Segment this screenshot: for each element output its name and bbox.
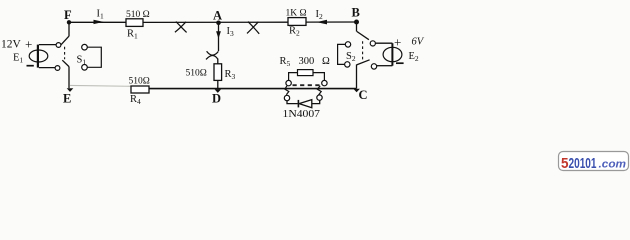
wire F down (68, 22, 70, 36)
svg-text:F: F (64, 8, 72, 22)
switch linkage dashed left (64, 47, 66, 60)
svg-text:1K Ω: 1K Ω (286, 8, 307, 18)
switch linkage dashed right (362, 41, 364, 59)
switch contact bottom left (55, 66, 60, 71)
plus sign E2 (394, 34, 401, 49)
svg-text:12V: 12V (1, 39, 22, 51)
wire battery- to contact (39, 67, 55, 69)
wire E to R4 (faint) (70, 84, 132, 87)
current arrow I1 (94, 9, 105, 25)
svg-text:E1: E1 (13, 53, 23, 65)
svg-text:Ω: Ω (322, 56, 330, 67)
switch blade top left (61, 36, 69, 44)
svg-text:I1: I1 (97, 9, 105, 21)
switch blade top right (357, 31, 369, 39)
switch contact top left (56, 43, 61, 48)
svg-text:D: D (212, 92, 221, 106)
resistor R3 (186, 64, 236, 81)
node B (352, 6, 360, 25)
node F (64, 8, 72, 24)
break mark X3 (206, 51, 218, 59)
switch blade bottom right (357, 60, 370, 65)
svg-text:+: + (394, 34, 401, 49)
label E1 (13, 53, 23, 65)
svg-text:510Ω: 510Ω (186, 68, 207, 78)
svg-text:R2: R2 (289, 26, 300, 38)
resistor R1 (126, 10, 150, 40)
svg-text:E2: E2 (409, 51, 419, 63)
wire to E (68, 67, 70, 89)
wire X3 to R3 (217, 59, 219, 64)
wire R3 to D (217, 80, 219, 88)
switch blade bottom left (62, 60, 69, 66)
node A (213, 9, 222, 26)
node E (63, 88, 73, 105)
node D (212, 89, 221, 105)
svg-text:300: 300 (299, 56, 315, 67)
svg-text:5: 5 (561, 156, 569, 172)
current arrow I2 (316, 9, 328, 24)
svg-text:C: C (359, 88, 368, 102)
relay blade right (317, 86, 321, 95)
switch S2 (338, 42, 356, 67)
wire battery+ to contact (39, 44, 56, 46)
svg-text:1N4007: 1N4007 (283, 109, 321, 120)
break mark X1 (175, 22, 187, 33)
break mark X2 (247, 22, 259, 34)
svg-text:R3: R3 (225, 69, 236, 81)
wire top bus F to R1 (69, 21, 127, 23)
svg-text:20101: 20101 (569, 156, 597, 172)
label 6V (412, 37, 425, 48)
switch contact top right (370, 41, 375, 46)
svg-text:.com: .com (599, 159, 627, 171)
current arrow I3 (216, 26, 234, 39)
relay contact lower right (317, 95, 322, 100)
battery E2 cell (383, 43, 402, 65)
wire R1 to R2 (143, 21, 289, 23)
svg-text:I3: I3 (227, 26, 235, 38)
wire R4 to C (bottom bus) (149, 88, 357, 90)
minus sign E1 (27, 65, 34, 67)
svg-text:R5: R5 (280, 56, 291, 68)
switch contact bottom right (371, 64, 376, 69)
label 12V (1, 39, 22, 51)
relay blade left (285, 86, 289, 95)
svg-text:S1: S1 (77, 54, 87, 66)
label E2 (409, 51, 419, 63)
wire battery- to contact (377, 65, 392, 67)
resistor R4 (129, 76, 150, 105)
logo 520101.com (559, 152, 629, 173)
diode D1 1N4007 (283, 100, 321, 120)
wire R2 to B (306, 21, 357, 23)
branch A down wire (218, 24, 220, 51)
minus sign E2 (396, 62, 404, 64)
plus sign E1 (25, 37, 32, 52)
wire contact to battery+ (376, 42, 393, 44)
svg-text:E: E (63, 91, 71, 105)
node C (353, 88, 367, 102)
svg-text:510 Ω: 510 Ω (126, 10, 150, 20)
relay coil R5 (280, 56, 331, 81)
svg-text:A: A (213, 9, 222, 23)
switch S1 (77, 44, 102, 70)
svg-text:I2: I2 (316, 9, 324, 21)
svg-text:R4: R4 (130, 94, 141, 106)
svg-text:B: B (352, 6, 360, 20)
relay linkage dashed (293, 84, 322, 86)
svg-text:R1: R1 (127, 29, 138, 41)
resistor R2 (286, 8, 307, 37)
relay contact upper left (286, 80, 291, 85)
wire B down (356, 24, 358, 31)
wire contact to C (356, 65, 358, 89)
svg-text:6V: 6V (412, 37, 425, 48)
svg-text:+: + (25, 37, 32, 52)
svg-text:S2: S2 (346, 51, 356, 63)
battery E1 cell (29, 45, 48, 68)
svg-text:510Ω: 510Ω (129, 76, 150, 86)
relay contact upper right (322, 80, 327, 85)
relay contact lower left (284, 95, 289, 100)
